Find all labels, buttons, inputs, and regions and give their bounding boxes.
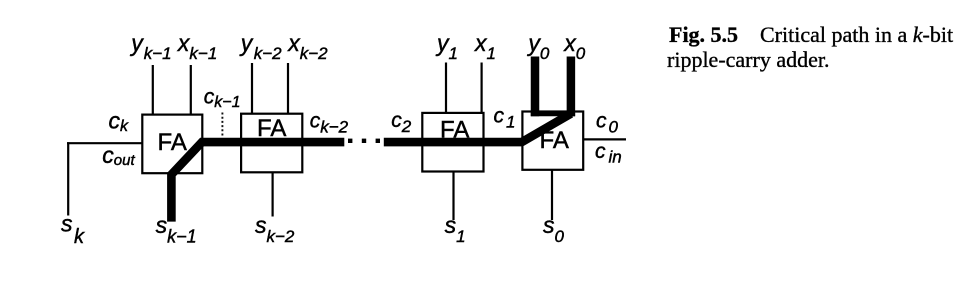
wire c_k horizontal from FA1 left edge — [67, 142, 142, 144]
svg-text:s0: s0 — [543, 212, 565, 246]
full adder FA1 box — [142, 115, 202, 174]
wire s_k vertical bend — [67, 142, 69, 215]
svg-text:c0: c0 — [596, 110, 619, 137]
critical path: thick carry chain segment left (c_k-1 into FA1, diagonal to s_k-1) — [171, 142, 344, 222]
svg-text:c1: c1 — [494, 105, 516, 132]
wire x_k-2 input — [287, 63, 289, 113]
svg-text:sk−2: sk−2 — [255, 212, 295, 246]
svg-text:s1: s1 — [445, 212, 466, 246]
wire x_1 input — [481, 63, 483, 113]
critical path: thick bar joining y_0 and x_0 inside FA4 — [531, 111, 575, 116]
full adder FA3 box — [422, 113, 483, 172]
figure caption line 1 text — [760, 22, 953, 48]
svg-text:FA: FA — [158, 129, 187, 156]
critical path dots (ellipsis) — [348, 139, 380, 143]
svg-text:FA: FA — [540, 127, 569, 154]
svg-text:xk−2: xk−2 — [287, 30, 328, 63]
svg-text:sk−1: sk−1 — [156, 212, 197, 247]
svg-text:FA: FA — [257, 115, 286, 142]
svg-text:sk: sk — [61, 211, 85, 249]
svg-text:c2: c2 — [391, 109, 412, 136]
wire y_1 input — [445, 63, 447, 113]
critical path: thick y_0 input — [531, 57, 540, 117]
wire y_k-2 input — [251, 63, 253, 113]
figure caption line 2 — [667, 47, 829, 73]
critical path: thick x_0 input — [567, 57, 576, 117]
full adder FA4 box — [522, 112, 583, 170]
svg-text:ck: ck — [109, 108, 130, 136]
svg-text:y1: y1 — [435, 30, 458, 63]
wire s_0 output — [551, 171, 553, 221]
svg-text:cout: cout — [102, 142, 135, 169]
svg-text:x1: x1 — [474, 30, 496, 63]
tick from label c_k-1 to wire — [221, 113, 223, 138]
wire x_k-1 input — [190, 65, 192, 114]
wire s_1 output — [452, 172, 454, 220]
wire y_k-1 input — [152, 65, 154, 114]
full adder FA2 box — [241, 114, 302, 173]
svg-text:ck−2: ck−2 — [310, 109, 349, 136]
wire s_k-2 output — [272, 173, 274, 217]
svg-text:FA: FA — [440, 117, 469, 144]
figure caption line 1 — [669, 22, 738, 48]
svg-text:yk−2: yk−2 — [239, 30, 282, 63]
svg-text:xk−1: xk−1 — [177, 30, 217, 63]
svg-text:cin: cin — [595, 140, 622, 167]
wire c_0 / c_in on right — [584, 138, 626, 140]
svg-text:ck−1: ck−1 — [204, 86, 241, 112]
critical path: thick carry chain segment right with diagonal up into FA4 — [384, 114, 571, 143]
svg-text:yk−1: yk−1 — [129, 30, 171, 63]
